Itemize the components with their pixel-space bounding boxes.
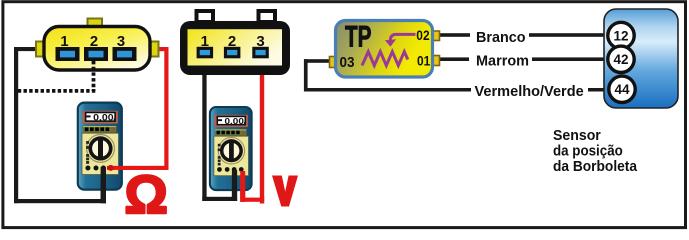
svg-text:03: 03 [340, 55, 355, 71]
svg-text:Sensor: Sensor [553, 128, 601, 144]
svg-text:3: 3 [256, 33, 264, 50]
svg-text:2: 2 [228, 33, 236, 50]
svg-text:da Borboleta: da Borboleta [553, 159, 638, 175]
svg-text:Vermelho/Verde: Vermelho/Verde [475, 83, 584, 100]
svg-text:Marrom: Marrom [476, 53, 529, 70]
svg-text:01: 01 [417, 53, 430, 69]
svg-text:2: 2 [90, 34, 98, 50]
svg-text:12: 12 [613, 28, 628, 43]
svg-text:da posição: da posição [553, 144, 623, 160]
svg-text:1: 1 [60, 34, 68, 50]
svg-text:42: 42 [613, 52, 628, 67]
svg-text:3: 3 [117, 34, 125, 50]
svg-text:02: 02 [416, 27, 429, 43]
svg-text:TP: TP [345, 20, 372, 53]
svg-text:Ω: Ω [125, 165, 168, 225]
svg-text:44: 44 [614, 82, 630, 97]
svg-text:1: 1 [201, 33, 209, 50]
svg-text:Branco: Branco [476, 29, 526, 46]
